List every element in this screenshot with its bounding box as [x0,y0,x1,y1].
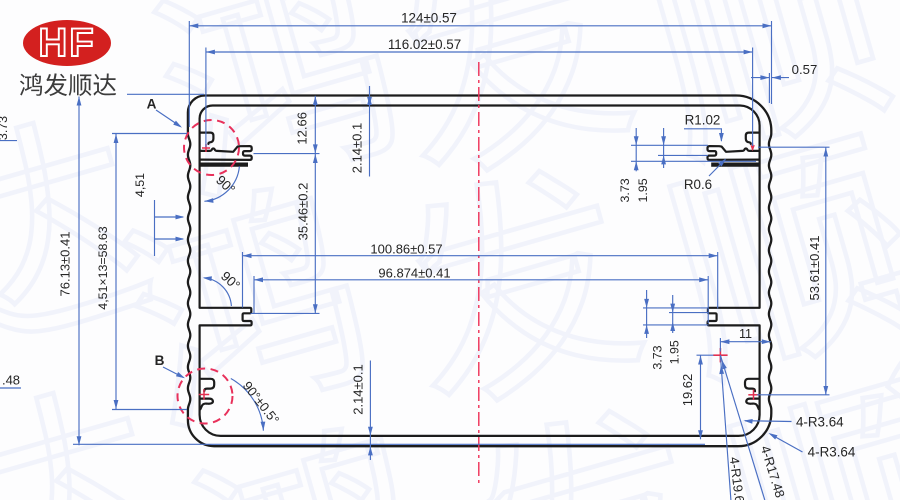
svg-text:3.73: 3.73 [651,345,665,369]
svg-text:96.874±0.41: 96.874±0.41 [378,266,450,281]
svg-text:B: B [155,353,165,368]
svg-text:2.14±0.1: 2.14±0.1 [351,364,366,415]
svg-text:4,51: 4,51 [133,173,147,197]
svg-text:0.57: 0.57 [792,62,818,77]
svg-text:4,51×13=58.63: 4,51×13=58.63 [96,226,110,309]
svg-text:3.73: 3.73 [0,116,10,140]
svg-text:35.46±0.2: 35.46±0.2 [296,183,311,241]
svg-text:1.95: 1.95 [668,340,682,364]
svg-text:12.66: 12.66 [295,112,310,145]
svg-text:53.61±0.41: 53.61±0.41 [807,236,822,301]
svg-text:A: A [147,97,157,112]
svg-text:4-R3.64: 4-R3.64 [808,445,856,460]
svg-text:11: 11 [739,327,752,341]
svg-text:2.14±0.1: 2.14±0.1 [350,123,365,174]
svg-text:.48: .48 [2,373,20,388]
svg-text:76.13±0.41: 76.13±0.41 [58,232,73,297]
svg-text:R1.02: R1.02 [685,112,721,127]
svg-text:R0.6: R0.6 [684,177,712,192]
svg-text:3.73: 3.73 [618,178,632,202]
svg-text:100.86±0.57: 100.86±0.57 [370,241,442,256]
svg-text:HF: HF [38,21,95,65]
svg-text:124±0.57: 124±0.57 [401,10,457,25]
svg-text:19.62: 19.62 [680,374,695,407]
svg-text:1.95: 1.95 [636,178,650,202]
svg-text:116.02±0.57: 116.02±0.57 [388,37,461,52]
svg-text:4-R3.64: 4-R3.64 [796,414,844,429]
